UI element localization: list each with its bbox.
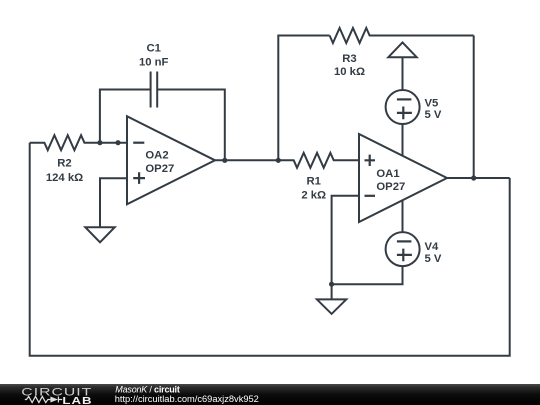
V4 minus symbol: [397, 240, 412, 242]
label V5 + value: [425, 97, 442, 121]
voltage source V5 circle: [386, 90, 420, 124]
svg-text:http://circuitlab.com/c69axjz8: http://circuitlab.com/c69axjz8vk952: [115, 394, 259, 404]
op-amp OA2 triangle body: [127, 116, 215, 204]
wire: from C1 right plate right and down to OA2 output node: [157, 90, 225, 161]
ground symbol (node C): [317, 284, 346, 314]
ground symbol (OA2 non-inverting input): [85, 227, 114, 242]
wire: V4 bottom stem left to ground node: [332, 266, 403, 284]
svg-text:LAB: LAB: [62, 394, 92, 405]
junction dot: OA1 output node with R3 branch: [471, 175, 476, 180]
svg-text:2 kΩ: 2 kΩ: [301, 189, 326, 201]
wire: OA2 output to R1 left node: [215, 159, 278, 161]
op-amp OA1 minus symbol (inverting input): [365, 195, 376, 197]
svg-text:5 V: 5 V: [425, 109, 442, 121]
wire: outer feedback loop from OA1 output down, along bottom, up left side to R2 left terminal: [30, 143, 510, 356]
svg-text:124 kΩ: 124 kΩ: [46, 172, 83, 184]
svg-text:MasonK / circuit: MasonK / circuit: [115, 385, 180, 395]
capacitor C1: [151, 72, 158, 108]
power flag arrow above V5: [388, 42, 416, 57]
wire: V5 positive stem from arrow down to circle: [402, 57, 404, 90]
voltage source V4 circle: [386, 232, 420, 266]
wire: from node A up and right to C1 left plate: [100, 90, 151, 143]
svg-text:10 nF: 10 nF: [139, 57, 169, 69]
label OA1 / OP27: [376, 168, 405, 193]
op-amp OA1 plus symbol (non-inverting input): [365, 155, 376, 166]
resistor R2: [30, 135, 127, 150]
CircuitLab logo resistor-diode glyph: [25, 396, 62, 402]
junction dot: node A (inverting input of OA2 / C1 feedback tap): [97, 140, 102, 145]
V5 plus symbol: [397, 107, 412, 120]
wire: OA1 output from apex to right edge: [447, 177, 510, 179]
svg-text:OP27: OP27: [376, 181, 405, 193]
label R2 + value: [46, 158, 83, 184]
wire: OA2 non-inverting input pin to ground branch: [100, 178, 127, 227]
label OA2 / OP27: [145, 150, 174, 175]
svg-text:R1: R1: [306, 176, 320, 188]
svg-text:R2: R2: [57, 158, 71, 170]
V4 plus symbol: [397, 249, 412, 262]
svg-text:C1: C1: [146, 43, 160, 55]
label C1 + value: [139, 43, 169, 69]
svg-text:R3: R3: [342, 53, 356, 65]
op-amp OA1 triangle body: [359, 134, 447, 222]
wire: V5 bottom stem to OA1 V+ power pin: [402, 124, 404, 156]
svg-text:V4: V4: [425, 241, 440, 253]
svg-text:OP27: OP27: [145, 163, 174, 175]
svg-text:OA2: OA2: [145, 150, 168, 162]
op-amp OA2 minus symbol (inverting input): [133, 142, 144, 144]
junction dot: OA2 inverting input pin terminal: [115, 140, 120, 145]
label V4 + value: [425, 241, 442, 265]
svg-text:5 V: 5 V: [425, 253, 442, 265]
wire: vertical from R3 right end down to OA1 output node: [473, 36, 475, 179]
resistor R3: [330, 28, 474, 43]
svg-text:10 kΩ: 10 kΩ: [334, 66, 365, 78]
op-amp OA2 plus symbol (non-inverting input): [133, 172, 145, 184]
svg-text:V5: V5: [425, 97, 439, 109]
wire: OA1 V- power pin to V4 top: [402, 200, 404, 232]
label R1 + value: [301, 176, 326, 202]
wire: from node B up to R3 left end: [278, 36, 329, 161]
V5 minus symbol: [397, 98, 412, 100]
svg-text:OA1: OA1: [376, 168, 399, 180]
junction dot: node C (OA1 inverting feedback / V4 return / ground): [329, 282, 334, 287]
label R3 + value: [334, 53, 365, 78]
wire: OA1 inverting input feedback branch down to ground node: [332, 196, 359, 285]
junction dot: node B (OA2 output / R3 branch / R1 left): [276, 158, 281, 163]
junction dot: OA2 output pin terminal: [222, 158, 227, 163]
resistor R1: [278, 153, 359, 168]
